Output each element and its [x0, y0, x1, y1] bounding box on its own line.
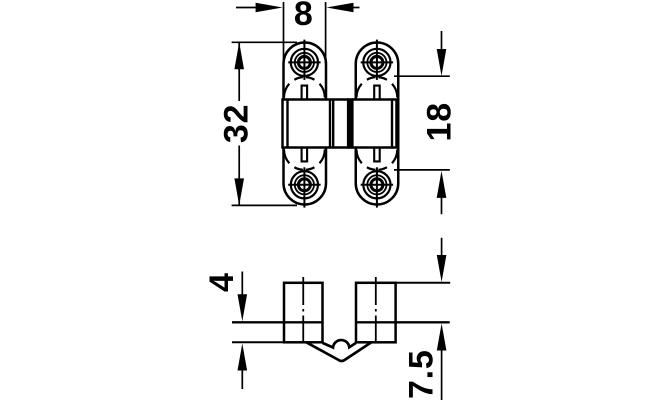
screw hole bottom-right: outer circle	[363, 171, 390, 198]
dashed bore arc top-right	[357, 77, 377, 97]
crosshair bottom-left	[288, 184, 320, 186]
dashed bore arc bottom-right	[357, 150, 377, 170]
dim 8: left extension line	[283, 2, 285, 64]
dashed bore arc bottom-left	[284, 150, 304, 170]
left mounting plate outline	[284, 43, 327, 205]
screw hole top-right: outer circle	[363, 49, 390, 76]
dim 18: top shaft and arrow	[441, 31, 443, 51]
dim text 18 (rotated)	[421, 102, 459, 141]
screw hole top-right: middle circle	[367, 53, 386, 72]
screw hole top-left: inner ring	[298, 56, 310, 68]
slot tab top-right	[374, 86, 380, 100]
crosshair top-left	[288, 61, 320, 63]
section: centerline left block (dash-dot)	[302, 277, 304, 347]
dim 8: right leader and arrow	[354, 7, 360, 9]
svg-text:32: 32	[217, 104, 255, 143]
svg-text:8: 8	[294, 0, 314, 33]
body inner wall left	[286, 100, 288, 148]
section: top extension right	[396, 282, 451, 284]
dim text 7.5 (rotated)	[402, 349, 440, 399]
slot tab bottom-right	[374, 148, 380, 162]
section: bottom extension left	[232, 341, 284, 343]
section: V link upper surface with pin bump	[323, 340, 357, 347]
dim 4: dimension line arrows	[241, 272, 243, 298]
svg-text:7.5: 7.5	[402, 349, 440, 399]
slot tab top-left	[302, 86, 308, 100]
svg-text:4: 4	[203, 272, 241, 292]
screw hole top-left: middle circle	[295, 53, 314, 72]
section view: right block	[356, 283, 396, 343]
dashed bore arc top-left	[284, 77, 304, 97]
dim text 32 (rotated)	[217, 104, 255, 143]
dim 32: bottom extension line	[232, 204, 297, 206]
dim 18: bottom extension line	[394, 169, 450, 171]
dim 8: left leader and arrow	[236, 7, 256, 9]
section: V link lower surface	[306, 342, 371, 361]
section: centerline right block (dash-dot)	[375, 277, 377, 347]
screw hole bottom-left: outer circle	[291, 171, 318, 198]
section view: left block	[284, 283, 323, 343]
section: leaf line left (with extension to dim 4)	[232, 321, 323, 323]
dim 18: top extension line	[394, 75, 450, 77]
center link black bar	[347, 98, 354, 148]
right mounting plate outline	[356, 43, 399, 205]
slot tab bottom-left	[302, 148, 308, 162]
screw hole bottom-right: middle circle	[367, 175, 386, 194]
screw hole bottom-left: inner ring	[298, 179, 310, 191]
svg-text:18: 18	[421, 102, 459, 141]
dim right: block-top arrow (from 18 line down)	[441, 238, 443, 258]
dim 32: dimension line with arrows	[238, 43, 240, 101]
crosshair bottom-right	[361, 184, 393, 186]
body inner wall right	[391, 100, 393, 148]
dim 32: top extension line	[232, 41, 297, 43]
body divider line C	[329, 100, 331, 148]
body divider line D	[332, 100, 334, 148]
screw hole bottom-left: middle circle	[295, 175, 314, 194]
screw hole bottom-right: inner ring	[371, 179, 383, 191]
section: leaf line right (with extension to dim 7.5)	[356, 321, 450, 323]
crosshair top-right	[361, 61, 393, 63]
dim text 4 (rotated)	[203, 272, 241, 292]
screw hole top-left: outer circle	[291, 49, 318, 76]
dim 7.5: arrow and shaft	[441, 348, 443, 400]
screw hole top-right: inner ring	[371, 56, 383, 68]
dim 8: right extension line	[325, 2, 327, 64]
hinge body rectangle (white fill covers plates)	[283, 100, 397, 148]
dim 18: bottom shaft and arrow	[441, 197, 443, 215]
